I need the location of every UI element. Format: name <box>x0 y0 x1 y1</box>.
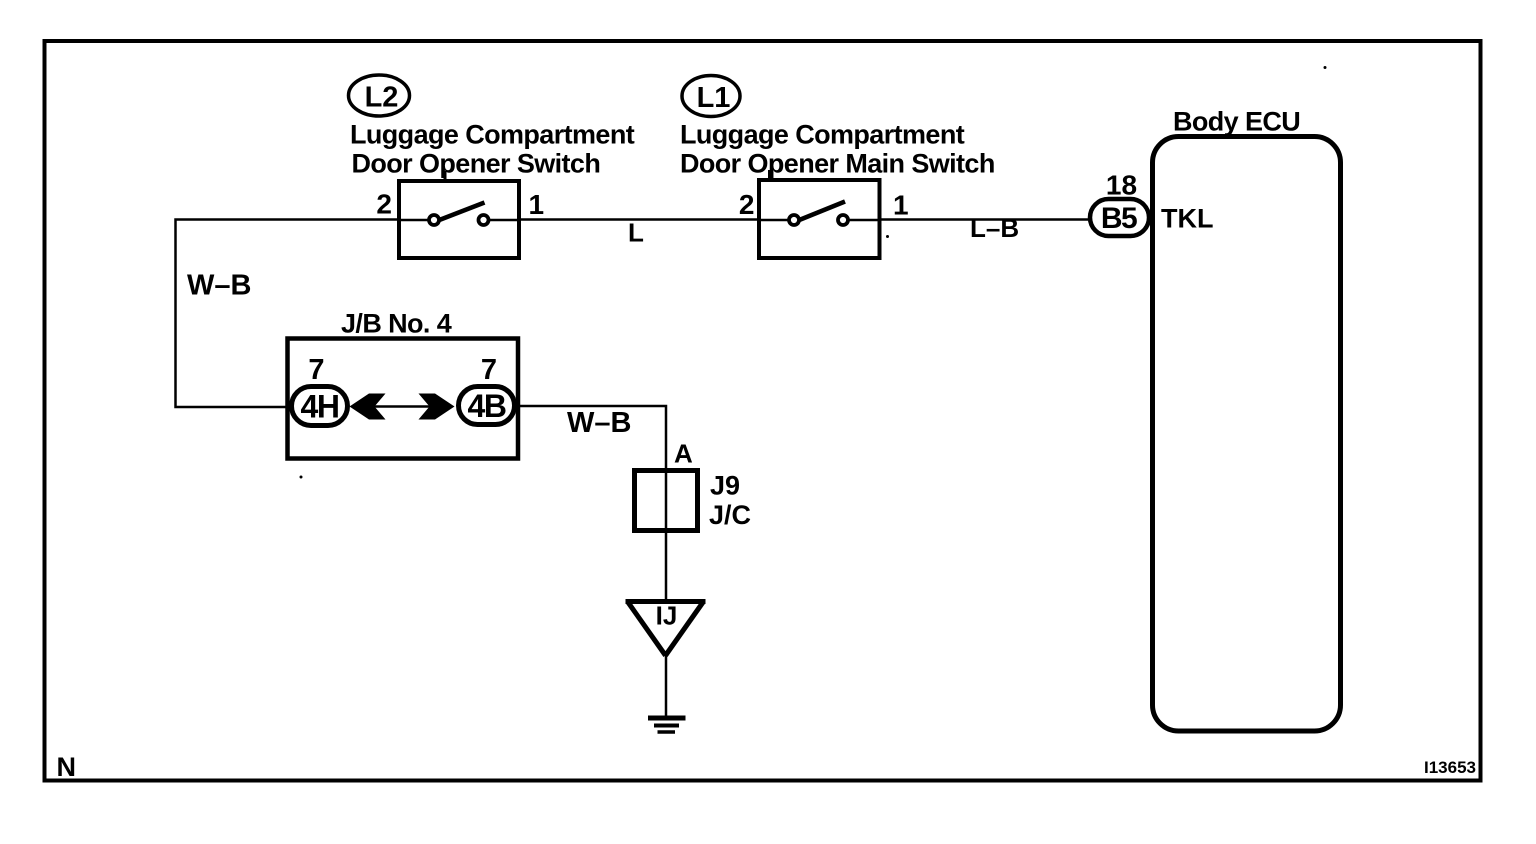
svg-text:IJ: IJ <box>656 601 678 631</box>
switch L2 contacts and blade <box>399 203 519 226</box>
svg-text:2: 2 <box>376 189 392 220</box>
svg-text:B5: B5 <box>1101 202 1137 235</box>
svg-text:L–B: L–B <box>970 213 1019 243</box>
svg-text:7: 7 <box>481 354 497 386</box>
svg-text:7: 7 <box>308 354 324 386</box>
junction block J/B No.4 box <box>288 339 519 459</box>
svg-text:1: 1 <box>529 189 545 220</box>
switch L2 box <box>399 171 519 258</box>
svg-text:W–B: W–B <box>187 270 251 302</box>
connector 4H <box>292 387 348 426</box>
wire between arrows <box>374 405 430 408</box>
scan specks <box>300 66 1327 479</box>
label Luggage Compartment Door Opener Switch <box>350 119 635 178</box>
wire L-B from L1 pin1 to Body ECU B5 <box>880 218 1089 221</box>
junction connector J9 box <box>635 471 698 531</box>
Body ECU box <box>1153 137 1341 732</box>
svg-text:N: N <box>57 752 77 782</box>
svg-text:A: A <box>674 439 693 469</box>
svg-text:J/B No. 4: J/B No. 4 <box>341 309 452 339</box>
svg-text:W–B: W–B <box>567 407 631 439</box>
svg-text:I13653: I13653 <box>1424 758 1476 777</box>
wire L between L2 pin1 and L1 pin2 <box>519 218 759 221</box>
svg-text:TKL: TKL <box>1161 204 1213 234</box>
label J9 J/C <box>709 471 751 531</box>
svg-text:J9: J9 <box>710 471 740 501</box>
svg-text:18: 18 <box>1106 170 1137 201</box>
wire W-B from 4B to junction connector J9 <box>517 406 666 601</box>
ground point IJ triangle <box>626 601 706 656</box>
svg-text:2: 2 <box>739 189 755 220</box>
svg-text:Luggage Compartment: Luggage Compartment <box>350 119 635 149</box>
connector B5 to Body ECU <box>1090 199 1149 236</box>
svg-text:L: L <box>628 218 644 248</box>
svg-text:L2: L2 <box>365 82 399 114</box>
svg-text:J/C: J/C <box>709 500 751 530</box>
svg-text:4B: 4B <box>468 388 506 424</box>
wire from IJ to ground <box>665 654 668 718</box>
wire W-B from L2 pin2 down-left to J/B connector 4H <box>176 220 400 408</box>
svg-text:1: 1 <box>893 190 909 221</box>
ground symbol <box>648 718 686 732</box>
svg-text:L1: L1 <box>697 82 731 114</box>
connector code oval L2 <box>349 75 410 116</box>
svg-text:Body ECU: Body ECU <box>1173 107 1300 137</box>
svg-text:4H: 4H <box>301 389 339 425</box>
svg-text:Door Opener Main Switch: Door Opener Main Switch <box>680 149 995 179</box>
switch L1 contacts and blade <box>759 202 880 226</box>
connector 4B <box>459 387 515 425</box>
svg-text:Luggage Compartment: Luggage Compartment <box>680 120 965 150</box>
connector code oval L1 <box>682 76 740 117</box>
connector arrow left <box>350 394 386 420</box>
switch L1 box <box>759 170 880 258</box>
connector arrow right <box>419 394 455 420</box>
label Luggage Compartment Door Opener Main Switch <box>680 120 995 179</box>
svg-text:Door Opener Switch: Door Opener Switch <box>352 149 601 179</box>
